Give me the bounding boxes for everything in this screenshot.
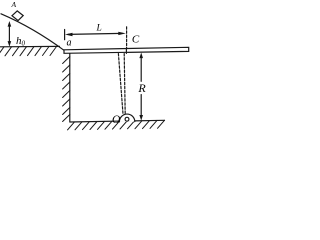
horizontal bar (table / track) xyxy=(64,47,189,53)
upper ground hatching xyxy=(0,47,57,56)
dimension R double arrow xyxy=(139,53,143,121)
pit wall xyxy=(69,54,71,122)
small circle inside dome xyxy=(125,117,129,121)
svg-text:A: A xyxy=(11,0,17,9)
dimension L: line with outward arrowheads xyxy=(65,32,126,37)
dome target at O xyxy=(119,114,134,122)
svg-text:a: a xyxy=(67,38,72,49)
dimension L: left tick xyxy=(64,30,66,40)
dashed fall line right xyxy=(124,54,125,114)
incline surface line xyxy=(1,14,64,51)
svg-text:C: C xyxy=(132,33,140,45)
pit floor line xyxy=(70,120,165,122)
pit floor hatching xyxy=(68,120,165,130)
pit wall hatching xyxy=(63,57,70,122)
dashed vertical line at C xyxy=(126,27,128,49)
upper ground line xyxy=(0,45,60,47)
dimension h0 double arrow xyxy=(8,21,12,47)
dashed fall line left xyxy=(118,54,123,114)
svg-text:R: R xyxy=(137,81,146,95)
svg-text:O: O xyxy=(112,114,121,126)
svg-text:L: L xyxy=(96,23,102,33)
block A (square on incline) xyxy=(12,11,23,21)
